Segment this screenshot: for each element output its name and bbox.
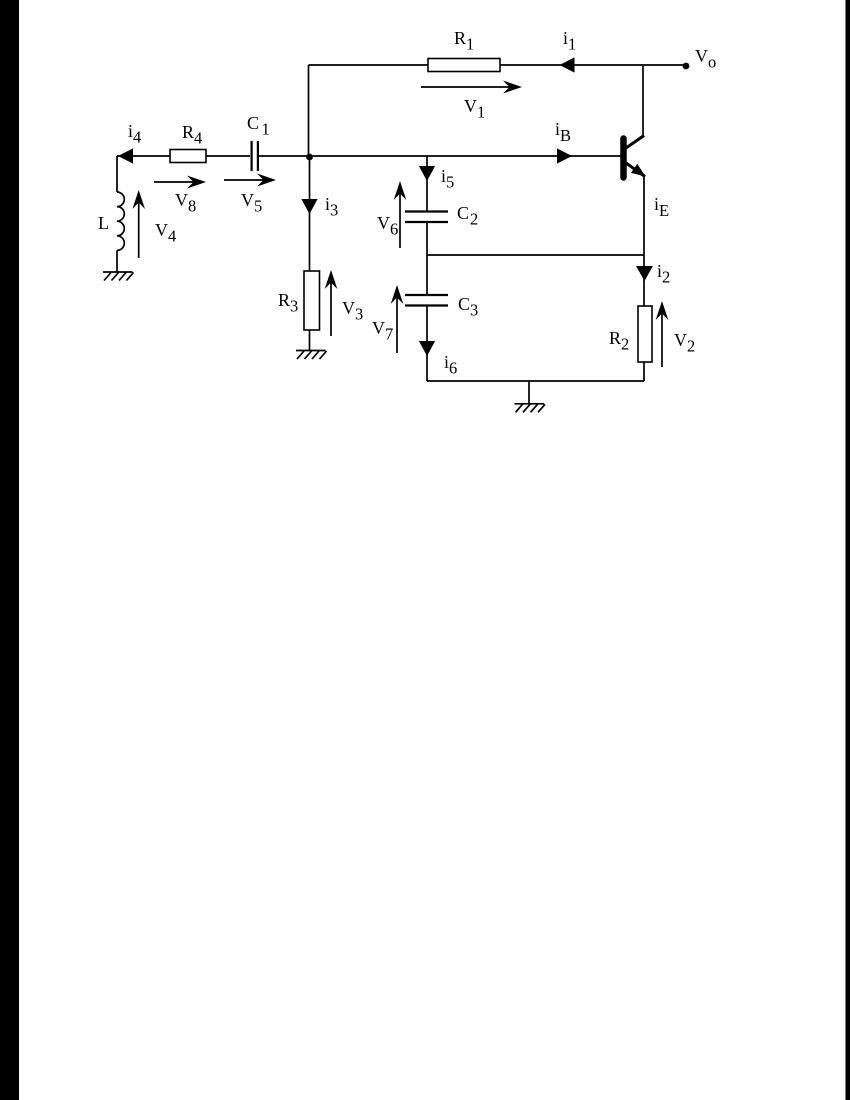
wire ground stub bottom <box>528 381 530 404</box>
voltage arrow V1 <box>421 81 522 94</box>
wire C3 to bottom <box>426 306 428 381</box>
voltage arrow V7 <box>391 285 404 353</box>
resistor R1 <box>428 59 500 72</box>
wire R3 to ground <box>309 330 311 350</box>
inductor L coil <box>117 192 124 250</box>
svg-text:L: L <box>98 213 109 233</box>
voltage arrow V8 <box>154 176 206 189</box>
wire top horizontal (collector feedback) <box>309 64 687 66</box>
wire emitter vertical <box>643 176 645 381</box>
current arrow i5 <box>419 166 435 181</box>
node dot base junction <box>306 154 313 161</box>
capacitor C2 <box>405 212 448 223</box>
current arrow i4 <box>118 148 133 163</box>
wire bottom horizontal <box>427 380 644 382</box>
wire C2 branch upper <box>426 156 428 211</box>
wire left vertical from top wire to base node <box>308 65 310 157</box>
ground bottom center <box>515 404 546 413</box>
resistor R4 <box>170 150 206 163</box>
wire inductor to ground <box>116 250 118 272</box>
scan margin bar left <box>0 0 19 1100</box>
wire base node vertical to R3 <box>309 157 311 271</box>
node Vo terminal dot <box>683 63 690 70</box>
resistor R3 <box>304 271 320 330</box>
capacitor C3 <box>405 295 448 306</box>
current arrow i1 <box>560 57 575 72</box>
voltage arrow V4 <box>132 190 145 258</box>
wire collector vertical <box>642 66 644 136</box>
wire mid junction horizontal to emitter <box>427 254 644 256</box>
wire main horizontal left of C1 <box>117 155 250 157</box>
voltage arrow V2 <box>656 301 669 367</box>
scan margin bar right <box>846 0 850 1100</box>
transistor Q1 <box>624 136 646 178</box>
ground under L <box>103 272 134 281</box>
wire C2 to C3 <box>426 223 428 295</box>
voltage arrow V3 <box>325 270 338 336</box>
voltage arrow V6 <box>394 181 407 248</box>
resistor R2 <box>638 306 652 362</box>
capacitor C1 <box>252 141 258 171</box>
current arrow i6 <box>419 341 435 356</box>
ground under R3 <box>296 351 327 360</box>
voltage arrow V5 <box>224 174 276 187</box>
current arrow i3 <box>301 199 317 214</box>
wire left branch vertical to inductor <box>116 156 118 192</box>
current arrow i2 <box>636 266 653 281</box>
wire main horizontal right of C1 <box>259 155 621 157</box>
current arrow iB <box>557 148 572 163</box>
